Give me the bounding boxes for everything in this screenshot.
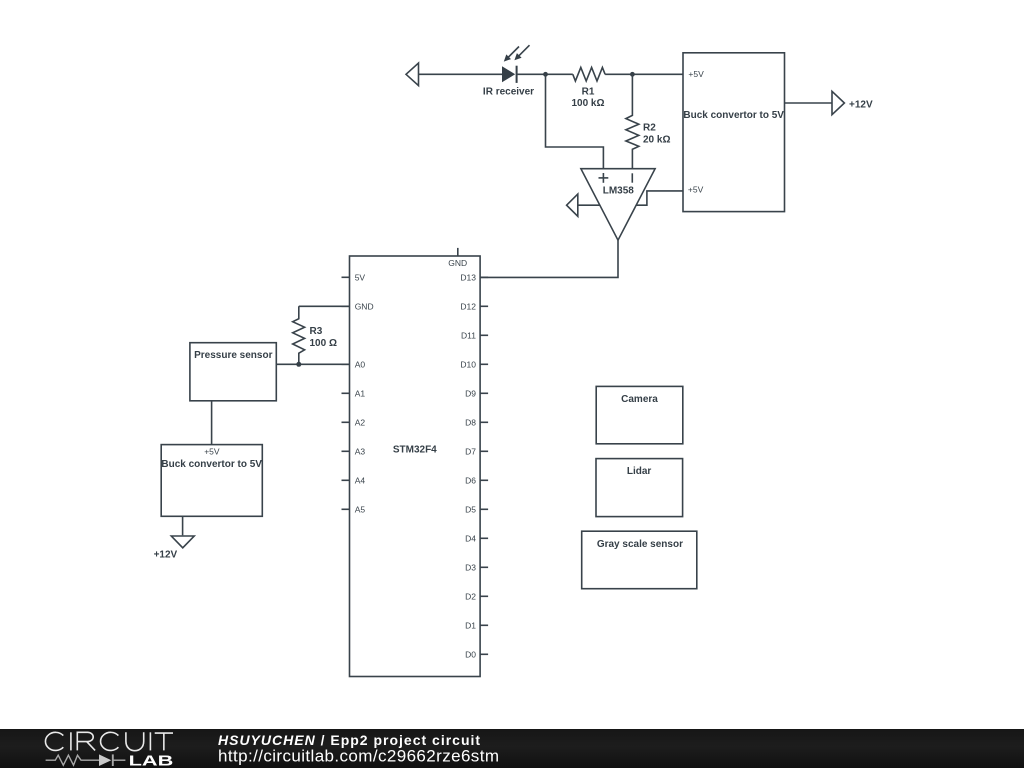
svg-text:Lidar: Lidar xyxy=(627,466,652,477)
svg-text:D11: D11 xyxy=(461,330,476,340)
svg-text:http://circuitlab.com/c29662rz: http://circuitlab.com/c29662rze6stm xyxy=(218,747,499,766)
svg-text:A1: A1 xyxy=(355,388,366,398)
svg-text:A0: A0 xyxy=(355,359,366,369)
wire op-amp output to D13 xyxy=(480,240,618,277)
wire buck to +12V flag bottom xyxy=(182,516,184,535)
op-amp U1 LM358 xyxy=(581,169,655,241)
wire op-amp to buck +5V xyxy=(636,191,683,205)
svg-text:D12: D12 xyxy=(460,301,476,311)
pin D12 xyxy=(460,301,488,311)
wire pressure sensor to buck xyxy=(211,401,213,445)
pin D5 xyxy=(465,504,488,514)
svg-text:D4: D4 xyxy=(465,533,476,543)
svg-text:A3: A3 xyxy=(355,446,366,456)
node junction C xyxy=(296,362,301,367)
svg-text:+12V: +12V xyxy=(849,100,873,111)
svg-text:D1: D1 xyxy=(465,620,476,630)
photodiode D1 IR receiver xyxy=(502,45,530,83)
pin A2 xyxy=(342,417,366,427)
label R2 value xyxy=(643,123,670,146)
pin D9 xyxy=(465,388,488,398)
pin A3 xyxy=(342,446,366,456)
net flag +12V bottom xyxy=(171,536,194,548)
net flag op-amp left xyxy=(567,194,600,216)
buck convertor U2 box xyxy=(683,53,785,212)
svg-text:D3: D3 xyxy=(465,562,476,572)
pin D4 xyxy=(465,533,488,543)
pin D6 xyxy=(465,475,488,485)
wire junction A to op-amp plus input xyxy=(546,74,604,168)
svg-text:D2: D2 xyxy=(465,591,476,601)
wire R1 to buck convertor xyxy=(605,73,683,75)
pin D11 xyxy=(461,330,488,340)
svg-text:+5V: +5V xyxy=(688,185,704,195)
pin A0 xyxy=(342,359,366,369)
label R1 value xyxy=(571,87,604,110)
svg-text:+5V: +5V xyxy=(204,447,220,457)
resistor R1 xyxy=(573,67,605,81)
svg-text:R1: R1 xyxy=(582,87,595,98)
label R3 value xyxy=(310,326,337,349)
gray scale sensor box xyxy=(582,531,697,589)
wire GND pin to R3 xyxy=(299,305,350,307)
node junction B xyxy=(630,72,635,77)
svg-text:A5: A5 xyxy=(355,504,366,514)
pin A5 xyxy=(342,504,366,514)
pin A1 xyxy=(342,388,366,398)
pin D7 xyxy=(465,446,488,456)
pin D8 xyxy=(465,417,488,427)
svg-text:A4: A4 xyxy=(355,475,366,485)
svg-text:D6: D6 xyxy=(465,475,476,485)
pin D2 xyxy=(465,591,488,601)
svg-text:LM358: LM358 xyxy=(603,186,635,197)
camera box xyxy=(596,386,683,443)
pin GND top xyxy=(448,248,467,268)
resistor R2 xyxy=(626,74,639,168)
svg-text:D9: D9 xyxy=(465,388,476,398)
svg-text:D10: D10 xyxy=(460,359,476,369)
svg-text:STM32F4: STM32F4 xyxy=(393,445,437,456)
net flag +12V right xyxy=(832,91,844,114)
svg-text:D5: D5 xyxy=(465,504,476,514)
wire buck to +12V flag xyxy=(785,102,832,104)
net flag left input xyxy=(406,63,419,86)
CircuitLab logo xyxy=(45,732,173,750)
pin A4 xyxy=(342,475,366,485)
pressure sensor box xyxy=(190,343,276,401)
wire pressure sensor to A0 xyxy=(276,363,349,365)
svg-text:GND: GND xyxy=(355,301,374,311)
svg-text:20 kΩ: 20 kΩ xyxy=(643,134,670,145)
lidar box xyxy=(596,459,683,517)
svg-text:LAB: LAB xyxy=(129,752,174,768)
svg-text:+12V: +12V xyxy=(154,550,178,561)
pin 5V xyxy=(342,272,366,282)
wire diode to R1 xyxy=(517,73,573,75)
pin D0 xyxy=(465,649,488,659)
node junction A xyxy=(543,72,548,77)
svg-text:D13: D13 xyxy=(460,272,476,282)
footer bar xyxy=(0,729,1024,768)
resistor R3 xyxy=(293,306,305,364)
pin D3 xyxy=(465,562,488,572)
pin GND left xyxy=(342,301,374,311)
svg-text:Gray scale sensor: Gray scale sensor xyxy=(597,539,683,550)
svg-text:+5V: +5V xyxy=(688,69,704,79)
svg-text:D0: D0 xyxy=(465,649,476,659)
svg-text:Buck convertor to 5V: Buck convertor to 5V xyxy=(683,110,784,121)
svg-text:R3: R3 xyxy=(310,326,323,337)
IC U3 STM32F4 box xyxy=(350,256,481,677)
svg-text:5V: 5V xyxy=(355,272,366,282)
svg-text:Pressure sensor: Pressure sensor xyxy=(194,350,272,361)
svg-text:IR receiver: IR receiver xyxy=(483,87,534,98)
pin D1 xyxy=(465,620,488,630)
svg-text:Camera: Camera xyxy=(621,394,658,405)
pin D10 xyxy=(460,359,488,369)
buck convertor U4 box left xyxy=(161,445,262,517)
pin D13 xyxy=(460,272,488,282)
svg-text:Buck convertor to 5V: Buck convertor to 5V xyxy=(161,459,262,470)
wire input to diode xyxy=(419,73,503,75)
svg-text:100 kΩ: 100 kΩ xyxy=(571,98,604,109)
svg-text:D7: D7 xyxy=(465,446,476,456)
svg-text:R2: R2 xyxy=(643,123,656,134)
svg-text:D8: D8 xyxy=(465,417,476,427)
svg-text:A2: A2 xyxy=(355,417,366,427)
svg-text:GND: GND xyxy=(448,258,467,268)
svg-text:100 Ω: 100 Ω xyxy=(310,338,337,349)
